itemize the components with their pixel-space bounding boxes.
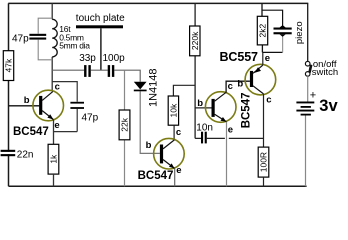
transistor Q3 BC547 — [197, 81, 252, 135]
svg-text:220k: 220k — [190, 31, 200, 50]
transistor Q1 BC547 — [13, 82, 64, 138]
svg-text:33p: 33p — [79, 53, 96, 64]
resistor 47k — [3, 51, 13, 81]
svg-text:+: + — [310, 90, 316, 102]
resistor 220k — [190, 26, 200, 56]
wire battery to bottom rail — [305, 116, 307, 187]
svg-text:b: b — [237, 78, 243, 89]
svg-text:BC547: BC547 — [241, 92, 253, 128]
switch S1 on/off — [305, 59, 338, 78]
wire emitter bypass branch — [52, 82, 77, 132]
svg-text:e: e — [54, 120, 59, 131]
resistor 10k — [168, 96, 178, 125]
svg-text:47p: 47p — [82, 112, 99, 123]
svg-text:10k: 10k — [168, 103, 178, 117]
resistor 22k — [119, 70, 130, 186]
svg-text:22k: 22k — [120, 117, 130, 131]
wire Q2 collector — [173, 125, 175, 140]
svg-text:22n: 22n — [17, 150, 34, 161]
svg-text:BC547: BC547 — [138, 170, 174, 182]
svg-text:e: e — [176, 165, 181, 176]
wire 2k2 branch — [262, 3, 283, 52]
resistor 1k — [48, 144, 59, 186]
wire bottom rail — [9, 185, 307, 187]
wire Q3 collector to Q4 base — [226, 81, 250, 92]
svg-text:b: b — [146, 140, 152, 151]
capacitor 100p — [103, 53, 126, 77]
wire Q4 collector down — [263, 94, 265, 147]
wire inductor branch / Q1 collector — [51, 3, 53, 91]
svg-text:b: b — [24, 95, 30, 106]
wire 220k branch — [194, 3, 196, 138]
svg-text:100R: 100R — [259, 152, 269, 172]
wire touch plate down — [100, 28, 102, 70]
wire coupling row y=70 — [52, 70, 140, 82]
svg-text:piezo: piezo — [294, 21, 305, 44]
svg-text:BC547: BC547 — [13, 126, 49, 138]
resistor 100R — [258, 147, 269, 186]
svg-text:3v: 3v — [319, 97, 338, 115]
wire switch to battery — [307, 76, 309, 101]
piezo sounder — [274, 21, 306, 44]
svg-text:e: e — [228, 124, 233, 135]
svg-text:47p: 47p — [12, 33, 29, 44]
wire Q1 base from left rail — [9, 105, 40, 107]
svg-text:1k: 1k — [49, 154, 59, 164]
capacitor 22n — [1, 150, 34, 161]
svg-text:47k: 47k — [4, 58, 14, 72]
capacitor C1 47p (tank) — [12, 18, 52, 60]
svg-text:5mm dia: 5mm dia — [59, 40, 90, 50]
wire left rail — [8, 3, 10, 186]
svg-text:100p: 100p — [103, 53, 126, 64]
svg-text:c: c — [176, 127, 181, 138]
transistor Q2 BC547 — [138, 127, 185, 182]
svg-text:BC557: BC557 — [220, 50, 259, 64]
svg-text:10n: 10n — [196, 122, 213, 133]
wire piezo branch — [262, 10, 283, 27]
wire right rail — [307, 3, 309, 61]
battery 3v — [296, 90, 338, 116]
transistor Q4 BC557 — [220, 50, 276, 105]
svg-text:switch: switch — [312, 67, 338, 78]
svg-text:c: c — [228, 81, 233, 92]
svg-text:2k2: 2k2 — [258, 23, 268, 37]
diode D1 1N4148 — [134, 68, 160, 153]
svg-text:touch plate: touch plate — [76, 13, 125, 24]
touch plate — [76, 13, 125, 28]
inductor L1 16t — [52, 19, 90, 57]
svg-text:1N4148: 1N4148 — [147, 68, 159, 107]
wire Q2 emitter — [174, 169, 176, 187]
wire Q3 emitter — [226, 122, 228, 186]
capacitor 33p — [79, 53, 96, 77]
svg-text:c: c — [266, 94, 271, 105]
capacitor 10n — [195, 122, 264, 143]
svg-text:c: c — [55, 82, 60, 93]
wire Q3 base — [195, 107, 211, 109]
svg-text:e: e — [265, 53, 270, 64]
wire Q1 emitter — [53, 120, 55, 145]
capacitor C4 47p (emitter) — [70, 102, 98, 124]
wire Q4 emitter up — [262, 52, 264, 65]
wire 10k branch — [173, 85, 195, 96]
resistor 2k2 — [257, 16, 267, 45]
svg-text:b: b — [197, 98, 203, 109]
wire top rail — [8, 2, 308, 4]
